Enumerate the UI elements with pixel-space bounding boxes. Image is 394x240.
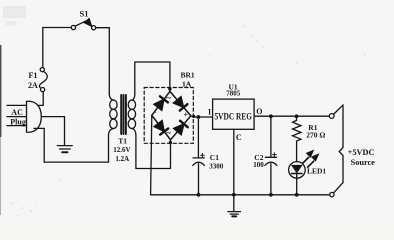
AC plug body — [27, 101, 42, 132]
bracket — [339, 105, 343, 183]
svg-text:7805: 7805 — [226, 90, 241, 98]
diode D-topleft — [154, 96, 168, 110]
junction dot LED bus — [295, 193, 299, 197]
wire: secondary top to bridge — [135, 62, 170, 94]
junction dot R1 tap — [295, 114, 299, 118]
svg-text:C: C — [236, 133, 242, 142]
core — [120, 95, 122, 134]
fuse F1 — [39, 68, 47, 92]
svg-text:-: - — [154, 108, 157, 117]
wire: secondary bottom to bridge bottom — [136, 135, 171, 169]
wire: regulator ground — [233, 129, 235, 210]
junction dot C1 tap — [197, 115, 201, 119]
junction dot at dashed edge — [192, 115, 195, 118]
svg-text:2A: 2A — [28, 81, 38, 90]
svg-text:12.6V: 12.6V — [113, 146, 130, 154]
svg-text:~: ~ — [166, 93, 171, 103]
wire: regulator output rail — [254, 115, 329, 117]
junction dot C2 tap — [269, 114, 273, 118]
svg-text:Plug: Plug — [10, 118, 26, 127]
junction dot reg ground — [232, 193, 236, 197]
svg-text:Source: Source — [351, 158, 376, 167]
primary winding — [109, 94, 113, 100]
output terminal bottom — [330, 192, 334, 196]
junction dot C1 bus — [197, 193, 201, 197]
svg-text:100: 100 — [253, 161, 264, 169]
bridge diamond — [152, 91, 191, 139]
diode D-bottomright — [174, 121, 188, 135]
svg-text:LED1: LED1 — [307, 166, 326, 175]
wire: plug bottom to primary bottom — [34, 128, 109, 162]
diode D-topright — [173, 97, 187, 111]
capacitor C1 — [197, 117, 199, 158]
secondary winding — [132, 94, 135, 100]
junction dot bridge bottom — [169, 141, 172, 144]
svg-text:F1: F1 — [29, 71, 38, 80]
svg-text:T1: T1 — [118, 137, 127, 146]
svg-text:~: ~ — [166, 128, 171, 138]
svg-text:O: O — [256, 107, 262, 116]
bridge BR1 dashed box — [144, 88, 193, 144]
wire: left drop to fuse — [42, 28, 44, 68]
svg-text:BR1: BR1 — [181, 71, 195, 80]
output terminal top — [329, 114, 334, 119]
svg-text:S1: S1 — [80, 9, 89, 19]
ground (mains) — [57, 146, 72, 153]
junction dot C2 bus — [269, 193, 273, 197]
diode D-bottomleft — [154, 121, 168, 135]
wire: bridge plus to regulator — [191, 116, 213, 117]
svg-text:270 Ω: 270 Ω — [306, 131, 325, 140]
capacitor C2 — [270, 116, 272, 157]
LED arrows — [303, 151, 319, 168]
svg-text:+: + — [184, 111, 189, 120]
svg-text:1.2A: 1.2A — [115, 155, 129, 163]
regulator U1 box — [213, 99, 255, 129]
ground (output) — [228, 212, 241, 217]
resistor R1 — [293, 116, 301, 161]
switch S1 — [71, 19, 95, 30]
wire: fuse to plug — [38, 92, 43, 106]
bottom bus — [151, 194, 330, 196]
wire: S1 right to transformer primary top — [96, 28, 110, 94]
plug prong lines — [7, 104, 27, 106]
svg-text:3300: 3300 — [209, 162, 224, 170]
svg-text:+5VDC: +5VDC — [348, 148, 375, 157]
svg-text:1A: 1A — [182, 80, 192, 89]
wire: bridge minus drop — [151, 115, 152, 195]
svg-text:5VDC REG: 5VDC REG — [215, 112, 253, 122]
svg-text:C1: C1 — [210, 153, 219, 162]
junction dot bridge top — [168, 87, 171, 90]
wire: plug middle to ground — [41, 117, 64, 145]
svg-text:AC: AC — [11, 108, 23, 117]
transformer T1 — [109, 94, 136, 135]
svg-text:I: I — [208, 108, 211, 117]
LED1 — [289, 162, 306, 179]
wire: S1 left feed — [43, 27, 72, 29]
